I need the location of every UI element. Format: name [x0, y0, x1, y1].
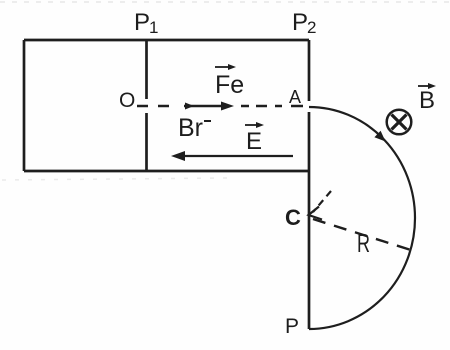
svg-text:2: 2 [307, 18, 316, 37]
svg-text:O: O [119, 89, 135, 112]
svg-text:P: P [285, 315, 299, 338]
svg-text:E: E [246, 128, 262, 155]
svg-text:C: C [285, 205, 301, 230]
svg-text:B: B [419, 87, 435, 114]
svg-text:Br: Br [178, 114, 203, 142]
svg-text:Fe: Fe [215, 71, 244, 99]
svg-text:R: R [357, 228, 370, 258]
svg-text:1: 1 [149, 18, 158, 37]
svg-text:P: P [134, 9, 150, 36]
svg-text:A: A [289, 87, 301, 107]
svg-text:P: P [292, 9, 308, 36]
